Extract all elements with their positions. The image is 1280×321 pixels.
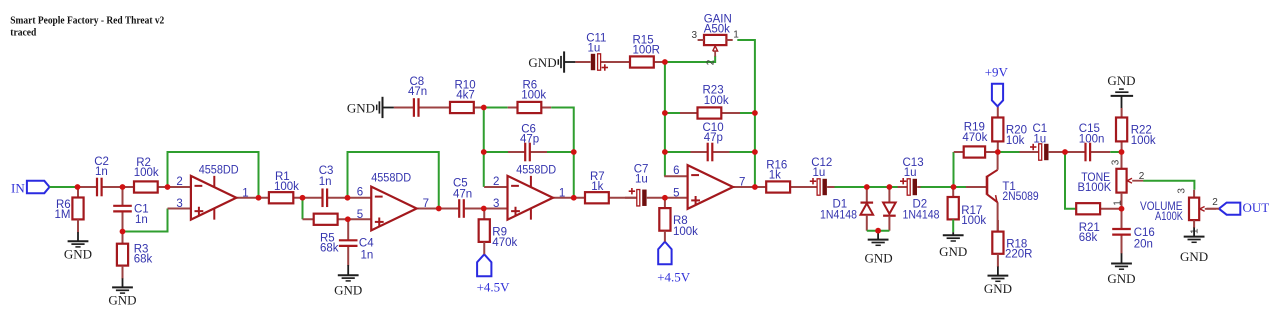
resistor R1 — [259, 192, 303, 203]
svg-text:2: 2 — [705, 59, 716, 65]
svg-text:3: 3 — [493, 198, 499, 210]
svg-text:1: 1 — [559, 187, 565, 199]
svg-text:1: 1 — [242, 187, 248, 199]
svg-text:100R: 100R — [633, 45, 661, 57]
junction node C7/R8/pin5 — [662, 195, 668, 201]
svg-text:1n: 1n — [135, 214, 148, 226]
svg-text:GND: GND — [939, 244, 967, 259]
svg-text:47p: 47p — [704, 132, 723, 144]
junction node C6 left — [481, 149, 487, 155]
wire C10 left — [665, 151, 691, 153]
wire D2 bottom lead — [888, 216, 890, 231]
svg-text:1N4148: 1N4148 — [820, 210, 857, 222]
svg-text:GND: GND — [1107, 73, 1135, 88]
wire C10 right — [730, 151, 755, 153]
junction node R23 right — [752, 110, 758, 116]
svg-text:GND: GND — [865, 251, 893, 266]
svg-text:GND: GND — [528, 55, 556, 70]
junction node R15/GAIN wiper — [662, 59, 668, 65]
junction node R5/C4/pin5 — [345, 216, 351, 222]
svg-text:100k: 100k — [274, 181, 299, 193]
svg-text:1k: 1k — [591, 181, 603, 193]
resistor R9 — [479, 209, 490, 242]
svg-text:100k: 100k — [704, 95, 729, 107]
svg-text:3: 3 — [176, 198, 182, 210]
junction node U1B out — [436, 206, 442, 212]
svg-text:+4.5V: +4.5V — [477, 280, 511, 295]
svg-text:5: 5 — [673, 187, 679, 199]
capacitor C2 — [78, 178, 123, 197]
svg-text:6: 6 — [357, 187, 363, 199]
ground (R22, inverted) — [1107, 73, 1135, 108]
ground (C11, rotated) — [528, 51, 575, 72]
svg-text:+4.5V: +4.5V — [657, 269, 691, 284]
wire D2 lead — [888, 187, 890, 203]
svg-text:47n: 47n — [453, 188, 472, 200]
junction node C6 right — [571, 149, 577, 155]
svg-text:1k: 1k — [769, 170, 781, 182]
svg-text:IN: IN — [11, 180, 25, 195]
svg-text:100n: 100n — [1079, 133, 1105, 145]
svg-text:2N5089: 2N5089 — [1002, 191, 1038, 203]
svg-text:1M: 1M — [55, 209, 71, 221]
svg-text:+9V: +9V — [985, 65, 1009, 80]
svg-text:470k: 470k — [962, 132, 987, 144]
wire C1/R3 to pin3 U1A — [123, 209, 168, 232]
supply flag +4.5V (R9) — [477, 254, 491, 276]
svg-text:1u: 1u — [588, 42, 601, 54]
resistor R19 — [954, 146, 998, 157]
svg-text:Smart People Factory - Red Thr: Smart People Factory - Red Threat v2 — [10, 14, 164, 26]
ground (C16) — [1107, 253, 1135, 286]
svg-text:GND: GND — [1180, 249, 1208, 264]
junction node R23 left — [662, 110, 668, 116]
resistor R23 — [680, 107, 740, 118]
svg-text:D1: D1 — [833, 198, 848, 210]
junction node R2/pin2/feedback — [165, 184, 171, 190]
resistor R5 — [303, 214, 348, 225]
svg-text:7: 7 — [423, 198, 429, 210]
potentiometer TONE — [1116, 169, 1143, 193]
resistor R10 — [437, 102, 484, 113]
junction node R1/C3/R5 — [300, 195, 306, 201]
capacitor C12 — [800, 178, 836, 195]
svg-text:100k: 100k — [1131, 135, 1156, 147]
wire diode common — [867, 230, 890, 232]
wire down to R5 — [302, 198, 304, 220]
capacitor C13 — [898, 178, 921, 195]
svg-text:C4: C4 — [359, 237, 374, 249]
junction node T1 collector — [995, 149, 1001, 155]
resistor R2 — [123, 181, 168, 192]
capacitor C16 — [1112, 209, 1131, 254]
wire eq node down to pin2 U2A — [483, 108, 485, 187]
svg-text:traced: traced — [10, 26, 36, 38]
junction node C1/R3 — [120, 229, 126, 235]
svg-text:GND: GND — [334, 283, 362, 298]
svg-text:GND: GND — [1107, 271, 1135, 286]
svg-text:47n: 47n — [408, 86, 427, 98]
svg-text:2: 2 — [1212, 197, 1218, 208]
ground (R17) — [939, 232, 967, 259]
wire feedback U1A — [168, 152, 259, 198]
junction node R10/R6/eq — [481, 105, 487, 111]
wire C12 to D1 — [835, 186, 867, 188]
svg-text:4k7: 4k7 — [456, 90, 475, 102]
op-amp U1B 4558DD — [348, 187, 439, 231]
wire R6 right down — [551, 108, 574, 153]
svg-text:1u: 1u — [904, 167, 917, 179]
svg-text:47p: 47p — [520, 133, 539, 145]
wire TONE pin1 lead — [1121, 193, 1123, 209]
svg-text:4558DD: 4558DD — [516, 165, 556, 177]
wire down to U2A out — [573, 152, 575, 198]
wire GAIN pin1 down to U2B out — [737, 40, 755, 187]
wire feedback U1B — [348, 152, 439, 209]
net flag OUT — [1219, 203, 1240, 215]
capacitor C1 — [1020, 144, 1066, 160]
junction node C5/R9/pin3 — [481, 206, 487, 212]
junction node C10 right — [752, 149, 758, 155]
junction node C10 left — [662, 149, 668, 155]
svg-text:68k: 68k — [134, 253, 153, 265]
svg-text:C16: C16 — [1134, 227, 1155, 239]
junction node TONE/R21/C16 — [1119, 206, 1125, 212]
svg-text:GND: GND — [64, 247, 92, 262]
ground (C4) — [334, 265, 362, 298]
svg-text:10k: 10k — [1006, 135, 1025, 147]
svg-text:1u: 1u — [813, 167, 826, 179]
junction node U1A out — [256, 195, 262, 201]
svg-text:68k: 68k — [1079, 232, 1098, 244]
wire C6 right — [547, 151, 574, 153]
wire R19 left down to base — [953, 152, 955, 187]
svg-text:100k: 100k — [134, 167, 159, 179]
wire OUT lead — [1206, 208, 1219, 210]
svg-text:100k: 100k — [961, 215, 986, 227]
capacitor C3 — [303, 188, 348, 207]
wire C15 to R22 node — [1110, 151, 1121, 153]
svg-text:1n: 1n — [319, 176, 332, 188]
wire D1 to D2 — [867, 186, 890, 188]
junction node diodes to ground — [875, 228, 881, 234]
wire VOLUME pin3 lead — [1193, 190, 1195, 198]
resistor R20 — [992, 106, 1003, 152]
ground (R6) — [64, 219, 92, 261]
svg-text:3: 3 — [692, 30, 698, 41]
wire to GAIN wiper — [665, 56, 715, 62]
wire R23 row — [665, 112, 698, 114]
svg-text:OUT: OUT — [1243, 200, 1270, 215]
capacitor C10 — [691, 143, 730, 162]
resistor R3 — [117, 232, 128, 266]
svg-text:100k: 100k — [673, 226, 698, 238]
svg-text:4558DD: 4558DD — [199, 165, 239, 177]
op-amp U1A 4558DD — [168, 176, 259, 220]
ground (C8, rotated) — [347, 97, 394, 118]
diode D1 — [861, 203, 874, 215]
potentiometer VOLUME — [1189, 198, 1216, 221]
svg-text:5: 5 — [357, 209, 363, 221]
svg-text:20n: 20n — [1134, 238, 1153, 250]
potentiometer GAIN — [698, 35, 733, 57]
wire collector to C1 — [998, 151, 1020, 153]
capacitor C15 — [1065, 143, 1110, 162]
wire gain node down to pin6 U2B — [664, 62, 666, 176]
net flag IN — [27, 181, 50, 193]
svg-text:1n: 1n — [95, 166, 108, 178]
ground (diodes) — [865, 231, 893, 266]
transistor T1 — [966, 152, 998, 232]
svg-text:68k: 68k — [320, 243, 339, 255]
supply flag +9V — [992, 84, 1003, 107]
junction node D1 top — [864, 184, 870, 190]
svg-text:1N4148: 1N4148 — [903, 210, 940, 222]
ground (R18) — [984, 254, 1012, 296]
junction node base/R17/R19 — [951, 184, 957, 190]
resistor R7 — [574, 192, 637, 203]
junction node C3/pin6/feedback — [345, 195, 351, 201]
wire IN to node — [50, 186, 78, 188]
wire TONE wiper to VOLUME — [1143, 181, 1194, 190]
svg-text:3: 3 — [1177, 188, 1188, 194]
capacitor C5 — [439, 199, 484, 218]
capacitor C11 — [575, 54, 630, 71]
junction node C1/C15/R21 — [1062, 149, 1068, 155]
resistor R6 — [508, 102, 552, 113]
junction node U2B out — [752, 184, 758, 190]
op-amp U2A 4558DD — [484, 176, 575, 220]
svg-text:1u: 1u — [1033, 133, 1046, 145]
wire D1 bottom lead — [866, 215, 868, 231]
wire C6 left — [484, 151, 508, 153]
svg-text:GND: GND — [108, 293, 136, 308]
wire to R6 — [484, 107, 508, 109]
ground (R3) — [108, 266, 136, 308]
svg-text:GND: GND — [347, 100, 375, 115]
wire D1 lead — [866, 187, 868, 203]
svg-text:100k: 100k — [521, 90, 546, 102]
resistor R15 — [620, 56, 665, 67]
svg-text:2: 2 — [493, 176, 499, 188]
wire C13 to T1 base — [921, 186, 967, 188]
capacitor C6 — [508, 143, 547, 162]
svg-text:470k: 470k — [492, 237, 517, 249]
wire R17 to ground — [952, 219, 954, 232]
capacitor C8 — [394, 98, 450, 117]
svg-text:2: 2 — [176, 176, 182, 188]
svg-text:1n: 1n — [361, 250, 374, 262]
resistor R6 — [72, 187, 83, 219]
ground (VOLUME) — [1180, 220, 1208, 264]
svg-text:D2: D2 — [913, 198, 928, 210]
svg-text:4558DD: 4558DD — [371, 172, 411, 184]
svg-text:GND: GND — [984, 281, 1012, 296]
wire D2 to C13 — [889, 186, 899, 188]
resistor R18 — [992, 220, 1003, 254]
junction node C2/C1/R2 — [120, 184, 126, 190]
op-amp U2B 4558DD — [664, 165, 755, 209]
svg-text:B100K: B100K — [1078, 182, 1112, 194]
svg-text:6: 6 — [673, 165, 679, 177]
resistor R21 — [1076, 203, 1121, 214]
junction node D2 top — [887, 184, 893, 190]
resistor R16 — [755, 181, 800, 192]
svg-text:7: 7 — [739, 177, 745, 189]
svg-text:A50k: A50k — [704, 23, 730, 35]
svg-text:A100K: A100K — [1155, 211, 1183, 223]
resistor R17 — [948, 187, 959, 219]
diode D2 — [883, 203, 896, 216]
junction node IN/C2/R6 — [75, 184, 81, 190]
svg-text:1u: 1u — [635, 173, 648, 185]
resistor R22 — [1116, 108, 1127, 152]
junction node U2A out — [571, 195, 577, 201]
wire TONE pin3 lead — [1121, 152, 1123, 169]
capacitor C1 — [113, 187, 132, 232]
capacitor C4 — [339, 219, 358, 265]
capacitor C7 — [625, 188, 665, 206]
resistor R8 — [659, 198, 670, 231]
svg-text:220R: 220R — [1005, 248, 1033, 260]
wire down to R21 — [1065, 152, 1076, 209]
svg-text:3: 3 — [1110, 159, 1121, 165]
supply flag +4.5V (R8) — [658, 242, 671, 265]
junction node C15/R22/TONE — [1119, 149, 1125, 155]
